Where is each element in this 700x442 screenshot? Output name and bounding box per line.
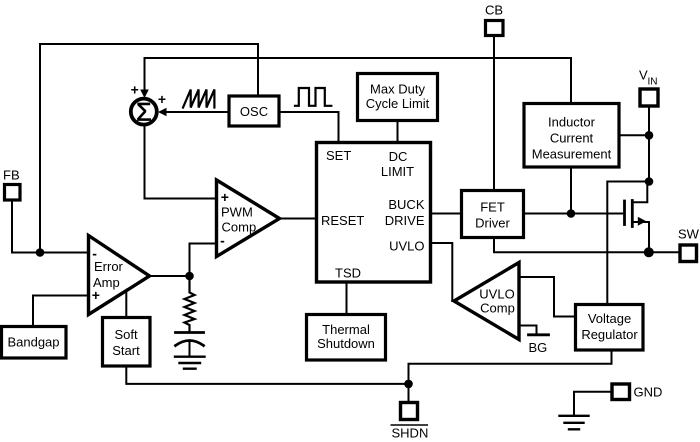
ground compensation (175, 357, 205, 369)
comparator PWM Comp (217, 180, 280, 257)
wire soft start bottom rail (126, 366, 408, 384)
wire SHDN pin stub (408, 384, 410, 401)
wire inductor current measurement sense (570, 167, 572, 214)
pin VIN (640, 89, 658, 106)
node SHDN junction (404, 380, 413, 389)
block Inductor Current Measurement (524, 104, 619, 168)
wire error amp output (149, 275, 190, 277)
wire OSC output to summing node (165, 111, 229, 113)
pin GND (612, 384, 630, 400)
svg-text:+: + (92, 287, 100, 303)
svg-text:BG: BG (529, 340, 548, 355)
op-amp Error Amp (89, 236, 150, 315)
svg-text:Voltage: Voltage (588, 311, 631, 326)
wire capacitor to ground (189, 341, 191, 356)
svg-text:LIMIT: LIMIT (381, 164, 414, 179)
svg-text:Cycle Limit: Cycle Limit (366, 96, 430, 111)
wire PWM comp output to RESET (280, 218, 316, 220)
pin CB (486, 21, 504, 36)
wire summing node to PWM comp + input (145, 126, 217, 199)
MOSFET Q1 source arrow (638, 217, 647, 226)
wire MOSFET drain (633, 182, 647, 203)
block Bandgap (2, 327, 67, 359)
svg-text:Bandgap: Bandgap (7, 335, 59, 350)
svg-text:Comp: Comp (222, 220, 257, 235)
MOSFET Q1 channel bar (631, 201, 634, 227)
wire MOSFET source to SW node (633, 222, 649, 252)
svg-text:TSD: TSD (335, 266, 361, 281)
wire VIN to voltage regulator (607, 182, 649, 305)
pin SHDN (401, 403, 418, 420)
MOSFET Q1 gate bar (623, 201, 626, 225)
svg-text:Thermal: Thermal (322, 322, 370, 337)
block PWM latch logic (317, 143, 431, 283)
svg-text:Driver: Driver (475, 216, 510, 231)
node VIN sense junction (645, 131, 654, 140)
svg-text:+: + (158, 91, 166, 107)
node error amp output junction (185, 272, 194, 281)
node VIN drain junction (645, 177, 654, 186)
capacitor compensation curved plate (176, 341, 204, 346)
wire max duty cycle limit to DC LIMIT (397, 121, 399, 142)
svg-text:Comp: Comp (480, 301, 515, 316)
wire VIN pin down (648, 106, 650, 182)
wire CB pin to FET driver (493, 36, 495, 189)
svg-text:DRIVE: DRIVE (385, 213, 425, 228)
wire bandgap to error amp + input (33, 296, 89, 327)
square wave waveform (295, 88, 331, 106)
block Max Duty Cycle Limit (358, 74, 438, 121)
svg-text:RESET: RESET (321, 213, 364, 228)
wire FB pin to error amp inverting input (12, 200, 89, 253)
wire TSD to thermal shutdown (346, 283, 348, 313)
svg-text:IN: IN (648, 77, 658, 88)
block Soft Start (103, 318, 151, 367)
svg-text:DC: DC (389, 149, 408, 164)
comparator UVLO Comp (454, 263, 519, 340)
svg-text:SHDN: SHDN (392, 426, 429, 441)
svg-text:SW: SW (678, 227, 700, 242)
svg-text:+: + (221, 189, 229, 205)
wire rail to voltage regulator (409, 351, 612, 384)
svg-text:Current: Current (550, 131, 594, 146)
svg-text:UVLO: UVLO (479, 287, 514, 302)
arrowhead into summing node right (158, 108, 167, 117)
svg-text:Measurement: Measurement (532, 147, 612, 162)
wire UVLO comp - input to BG reference (519, 326, 537, 335)
wire compensation node to PWM comp - input (190, 244, 217, 277)
svg-text:Error: Error (94, 259, 124, 274)
svg-text:PWM: PWM (221, 205, 253, 220)
svg-text:-: - (220, 233, 225, 249)
svg-text:UVLO: UVLO (389, 239, 424, 254)
svg-text:-: - (92, 246, 97, 262)
svg-text:GND: GND (634, 385, 663, 400)
BG reference bar (529, 333, 549, 336)
sawtooth waveform (183, 90, 214, 108)
svg-text:CB: CB (485, 3, 503, 18)
node gate wire junction (567, 209, 576, 218)
wire OSC output to SET input (279, 112, 339, 141)
wire BUCK DRIVE to FET driver (431, 213, 460, 215)
svg-text:Inductor: Inductor (548, 115, 596, 130)
wire GND pin to ground (574, 392, 611, 415)
arrowhead into summing node top (140, 90, 149, 99)
node SW junction (644, 247, 654, 257)
pin SW (680, 245, 697, 262)
svg-text:Soft: Soft (114, 327, 138, 342)
svg-text:+: + (131, 82, 139, 98)
capacitor compensation top plate (176, 331, 204, 334)
block Voltage Regulator (576, 305, 644, 351)
svg-text:OSC: OSC (240, 104, 268, 119)
svg-text:BUCK: BUCK (388, 197, 424, 212)
svg-text:SET: SET (326, 148, 351, 163)
svg-text:Max Duty: Max Duty (370, 82, 425, 97)
wire FET driver to MOSFET gate (524, 213, 623, 215)
wire inductor current measurement to VIN (619, 134, 649, 136)
svg-text:FB: FB (3, 168, 20, 183)
wire inductor current to summing node (145, 58, 572, 103)
svg-text:FET: FET (480, 200, 505, 215)
resistor compensation (185, 276, 195, 333)
block FET Driver (462, 191, 524, 238)
wire soft start to error amp (125, 291, 127, 318)
summing node circle (131, 99, 157, 125)
wire voltage regulator to UVLO comp + input (519, 277, 574, 317)
ground near GND pin (560, 416, 589, 430)
node FB junction (36, 248, 45, 257)
svg-text:Σ: Σ (136, 99, 151, 127)
block Thermal Shutdown (307, 315, 386, 361)
wire feedback FB up to OSC (40, 44, 258, 253)
wire FET driver low output to SW (494, 238, 679, 252)
wire UVLO comp output to UVLO input (431, 243, 452, 301)
block OSC (229, 96, 279, 126)
pin FB (5, 185, 21, 201)
svg-text:Shutdown: Shutdown (317, 336, 375, 351)
svg-text:Start: Start (112, 343, 140, 358)
svg-text:Regulator: Regulator (581, 327, 638, 342)
